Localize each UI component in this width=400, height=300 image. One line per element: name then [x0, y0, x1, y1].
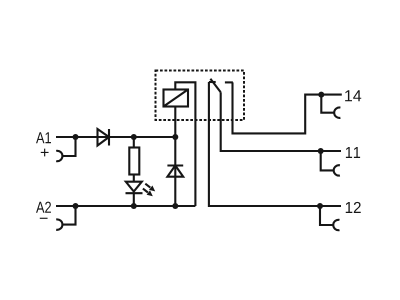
node freewheel branch bottom — [172, 203, 178, 209]
clamp terminal A1 — [56, 151, 62, 161]
node A1 terminal junction — [73, 134, 79, 140]
wire A2 horizontal — [56, 205, 195, 207]
wire freewheel branch — [174, 137, 176, 206]
resistor R1 — [129, 148, 139, 175]
wire coil top lead to A2 — [175, 82, 195, 206]
wire 12 terminal drop — [320, 206, 334, 225]
wire coil bottom lead — [174, 107, 176, 138]
relay module dashed outline — [156, 71, 245, 121]
node resistor branch top — [131, 134, 137, 140]
wire resistor to LED — [133, 175, 135, 182]
wire LED down — [133, 193, 135, 206]
diode D3 freewheel — [167, 166, 183, 177]
label + polarity — [41, 149, 49, 157]
node 12 — [317, 203, 323, 209]
wire A1 horizontal — [56, 136, 175, 138]
node 14 — [318, 92, 324, 98]
wire NC lead to 12 — [209, 82, 341, 206]
wire 14 terminal drop — [321, 95, 334, 113]
node freewheel branch top — [172, 134, 178, 140]
wire A2 terminal drop — [62, 206, 75, 225]
label A2 — [36, 202, 51, 213]
label A1 — [36, 132, 51, 143]
clamp terminal 12 — [333, 220, 339, 230]
clamp terminal A2 — [56, 219, 62, 229]
wire pole lead to 11 — [221, 92, 341, 151]
diode D1 series — [98, 129, 110, 146]
contact NC tick — [209, 81, 216, 83]
label - polarity — [40, 218, 48, 219]
switch blade — [210, 79, 220, 93]
label 12 — [346, 202, 361, 213]
clamp terminal 14 — [334, 107, 340, 117]
node 11 — [318, 148, 324, 154]
wire 11 terminal drop — [321, 151, 335, 170]
contact NO tick — [225, 81, 233, 83]
label 11 — [346, 147, 360, 158]
node LED branch bottom — [131, 203, 137, 209]
clamp terminal 11 — [334, 165, 340, 175]
wire resistor branch top — [133, 137, 135, 148]
LED D2 — [126, 182, 156, 197]
relay coil K1 — [164, 90, 189, 107]
node A2 terminal junction — [73, 203, 79, 209]
label 14 — [345, 90, 361, 101]
wire NO lead to 14 — [233, 82, 342, 133]
wire A1 terminal drop — [62, 137, 75, 156]
